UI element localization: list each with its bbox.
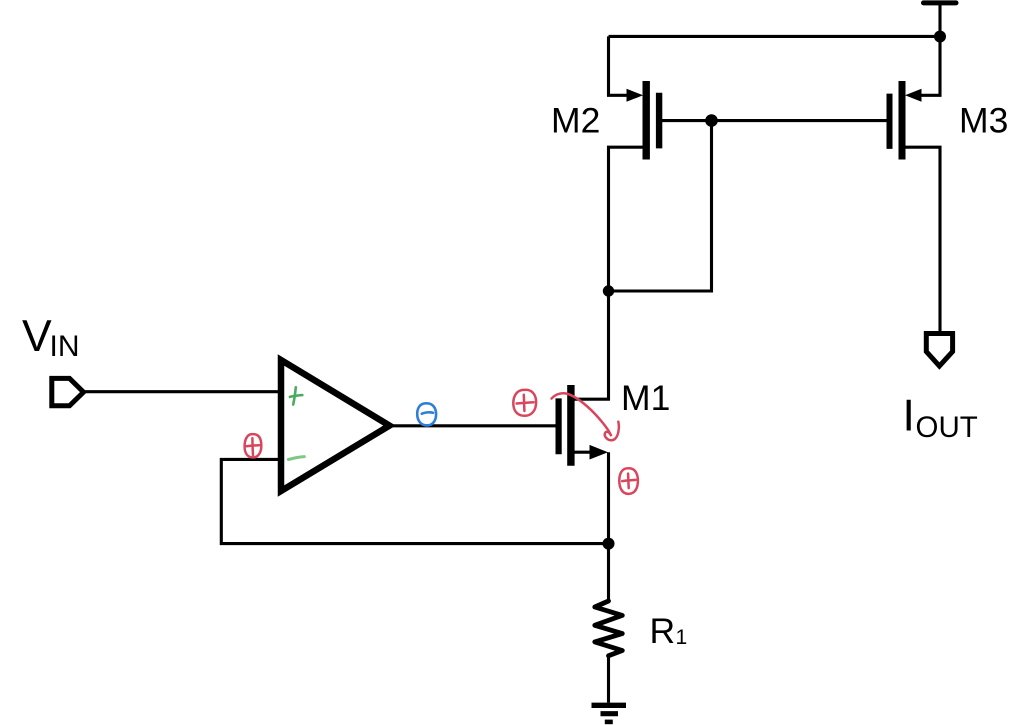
annotation: blue circled minus at op-amp output	[417, 403, 436, 425]
wire: M3 source lead	[921, 36, 940, 95]
svg-text:I: I	[903, 392, 915, 441]
annotation: red circled plus above M1 gate	[513, 390, 536, 416]
svg-text:V: V	[22, 312, 52, 361]
op-amp U1	[281, 360, 390, 491]
ground	[592, 705, 627, 722]
annotation: red circled plus at M1 source	[619, 468, 638, 494]
wire: node to resistor R1	[607, 544, 610, 601]
resistor R1	[595, 601, 623, 656]
wire: diode-connection from gate net down to M2 drain	[609, 121, 712, 291]
wire: M1 source to feedback node	[607, 452, 610, 543]
transistor M2 source arrow	[627, 89, 644, 102]
svg-text:M3: M3	[959, 101, 1008, 141]
wire: M2 source lead	[609, 36, 628, 95]
wire: VIN to op-amp non-inverting input	[85, 390, 278, 393]
transistor M3 channel bar	[899, 81, 906, 160]
transistor M1 channel bar	[567, 385, 574, 466]
svg-text:OUT: OUT	[916, 411, 978, 444]
annotation: green plus at op-amp non-inverting input	[290, 387, 302, 404]
annotation: green minus at op-amp inverting input	[288, 457, 304, 460]
pin VIN (input pin symbol)	[52, 378, 84, 405]
transistor M2 gate bar	[656, 93, 662, 149]
svg-text:1: 1	[676, 626, 688, 649]
VDD supply bar	[924, 3, 957, 37]
wire: M3 drain lead	[905, 147, 940, 331]
svg-text:M2: M2	[551, 101, 600, 141]
pin IOUT (output pin symbol)	[926, 334, 952, 367]
annotation: red curved arrow across M1	[552, 393, 619, 440]
transistor M2 channel bar	[643, 81, 650, 160]
wire: top rail VDD to M2 source	[609, 35, 941, 38]
annotation: red circled plus at inverting input	[245, 434, 262, 457]
node: M2 drain / M1 drain junction dot	[603, 285, 614, 296]
node: gate net junction dot	[705, 114, 718, 127]
wire: M2 drain lead	[609, 147, 644, 291]
wire: feedback from node to op-amp inverting input	[221, 459, 608, 543]
transistor M3 gate bar	[887, 94, 893, 149]
wire: M2 gate lead	[662, 119, 712, 122]
node: feedback junction dot	[603, 538, 615, 550]
transistor M1 gate bar	[555, 398, 561, 454]
wire: op-amp output to M1 gate	[392, 424, 556, 427]
transistor M1 source arrow	[590, 445, 609, 460]
wire: M1 source lead	[573, 451, 590, 454]
wire: M1 drain lead	[573, 291, 609, 399]
transistor M3 source arrow	[905, 89, 922, 102]
svg-text:R: R	[650, 611, 676, 651]
wire: gate net M2-M3	[712, 119, 888, 122]
wire: resistor to ground	[607, 656, 610, 703]
svg-text:M1: M1	[621, 378, 670, 418]
node: VDD junction dot	[934, 31, 946, 43]
svg-text:IN: IN	[50, 330, 80, 363]
